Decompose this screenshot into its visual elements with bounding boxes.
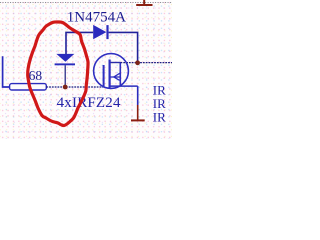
transistor body circle	[94, 54, 129, 89]
source wire down (dark red part)	[137, 105, 139, 120]
zener diode (vertical, circled)	[55, 54, 75, 65]
source lead wire to the right	[111, 85, 138, 87]
junction node on gate net	[63, 85, 68, 90]
drain wire: horizontal through node to right edge	[110, 62, 121, 64]
wire below vertical zener down to gate net	[64, 65, 66, 87]
wire from diode cathode right then down to drain node	[109, 32, 138, 62]
wire from vertical zener top, up and right to diode anode	[66, 32, 93, 54]
power bar symbol (cropped at top edge)	[136, 0, 152, 5]
decorative top dotted page boundary	[0, 2, 172, 4]
gate bar and lead	[103, 65, 105, 87]
gate net wire: resistor to MOSFET gate	[46, 86, 103, 88]
svg-text:4xIRFZ24: 4xIRFZ24	[57, 95, 121, 111]
resistor body	[10, 84, 47, 90]
red highlight ellipse annotation	[28, 22, 88, 126]
svg-text:68: 68	[29, 68, 43, 83]
arrowhead on MOSFET body lead (points left)	[114, 73, 121, 80]
source wire down (blue part)	[137, 86, 139, 105]
wire end bar terminal	[131, 119, 145, 121]
MOSFET Q1 4xIRFZ24	[94, 54, 129, 89]
right connecting bar	[119, 63, 121, 87]
junction node at drain	[135, 60, 140, 65]
svg-text:1N4754A: 1N4754A	[67, 9, 126, 25]
zener diode D (horizontal) 1N4754A	[93, 25, 108, 39]
body lead with arrow	[111, 76, 121, 78]
svg-text:IR: IR	[153, 109, 166, 124]
channel bar	[108, 60, 110, 88]
left wire: vertical at page edge then right to resistor	[3, 56, 10, 87]
